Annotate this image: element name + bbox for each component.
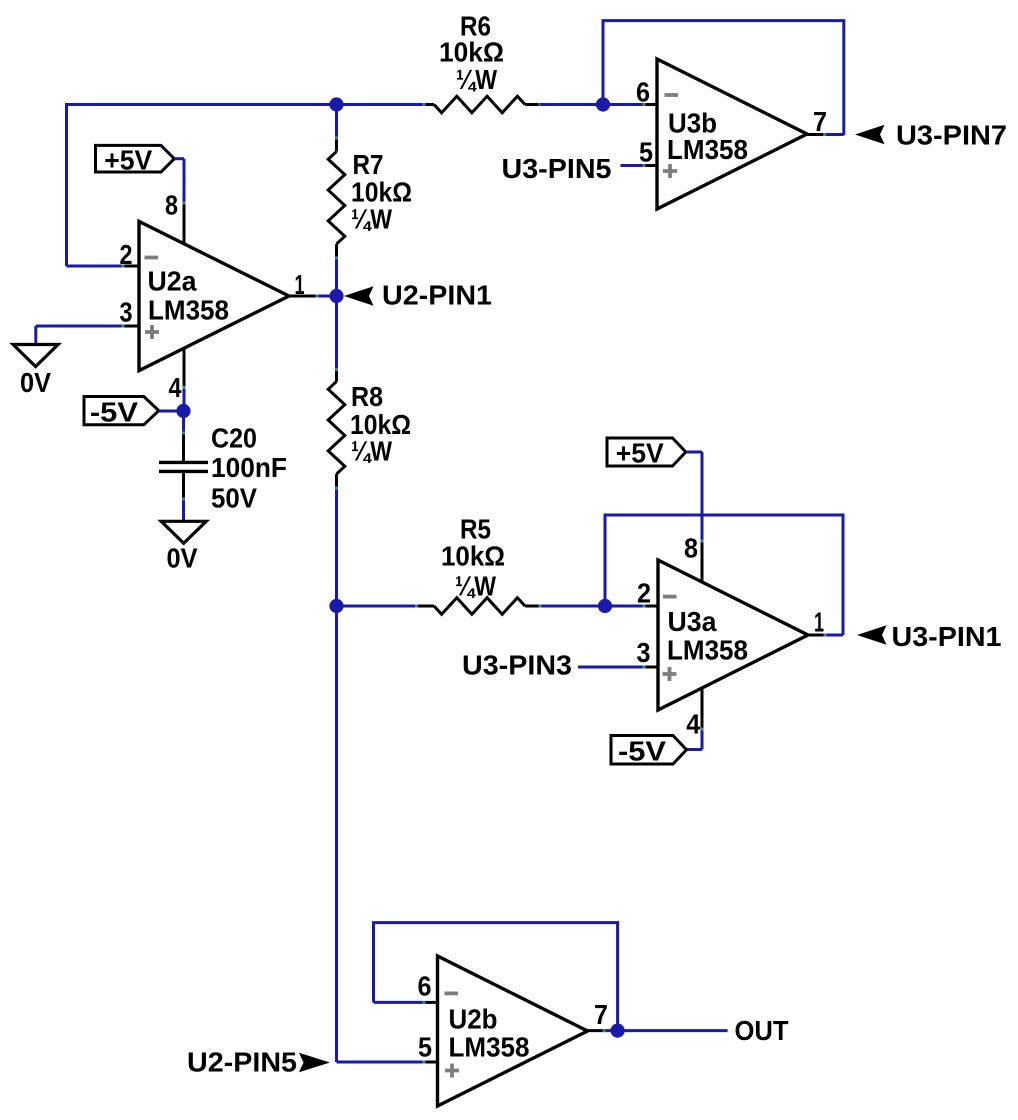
svg-text:¼W: ¼W [351,436,392,467]
svg-text:10kΩ: 10kΩ [439,37,504,68]
svg-text:LM358: LM358 [148,295,229,326]
wire U3a pin1 output [808,634,825,637]
wire U2b pin7 output [588,1029,605,1032]
svg-text:U2a: U2a [148,266,198,297]
power flag -5V (U3a pin4) [611,736,687,765]
svg-text:C20: C20 [211,423,257,454]
op-amp U2b [438,956,588,1106]
svg-text:LM358: LM358 [667,635,748,666]
svg-text:6: 6 [636,77,650,108]
resistor R7 [335,105,338,139]
svg-text:1: 1 [814,607,824,638]
svg-text:U3-PIN7: U3-PIN7 [896,120,1007,151]
wire +5V to U2a pin8 [174,157,184,160]
op-amp U2a minus input [145,256,159,260]
wire U2a pin2 horizontal [67,265,124,268]
svg-text:3: 3 [120,297,133,328]
svg-text:¼W: ¼W [351,204,392,235]
op-amp U2a plus input [145,325,159,339]
svg-text:¼W: ¼W [456,64,497,95]
ground 0V (U2a pin3) [13,345,58,367]
svg-text:4: 4 [169,372,183,403]
svg-text:2: 2 [120,239,133,270]
wire U3b pin5 [621,164,645,167]
svg-text:U2-PIN5: U2-PIN5 [187,1047,297,1078]
power flag +5V (U2a pin8) [96,145,175,172]
svg-text:U3a: U3a [668,606,718,637]
junction node OUT [611,1024,625,1038]
wire U3b feedback [602,21,605,105]
junction node U3a pin2 [598,599,612,613]
power flag -5V (U2a pin4) [84,397,159,425]
arrow U3-PIN7 [855,125,885,144]
wire U2a pin4 [183,348,186,388]
junction node pin4/C20 [176,404,190,418]
wire U3a pin3 [578,666,644,669]
svg-text:4: 4 [686,709,701,740]
wire +5V to U3a pin8 [686,451,702,454]
svg-text:R7: R7 [353,149,384,180]
svg-text:U3-PIN3: U3-PIN3 [462,650,572,681]
junction node U2-PIN1 [329,289,343,303]
svg-text:LM358: LM358 [449,1032,530,1063]
wire U2b pin5 [337,1061,425,1064]
wire U2a pin1 to node [287,295,317,298]
power flag +5V (U3a pin8) [607,438,686,466]
svg-text:8: 8 [165,190,178,221]
svg-text:8: 8 [684,533,698,564]
op-amp U2b plus input [445,1064,459,1078]
svg-text:6: 6 [418,971,432,1002]
svg-text:-5V: -5V [90,396,139,427]
svg-text:-5V: -5V [618,735,667,766]
capacitor C20 [182,411,185,433]
resistor R6 [424,103,434,106]
svg-text:5: 5 [418,1032,432,1063]
op-amp U2b minus input [445,992,459,996]
op-amp U3a plus input [663,667,677,681]
svg-text:5: 5 [639,137,653,168]
wire main vertical to U2b [335,606,338,1062]
arrow U2-PIN1 [344,286,374,305]
resistor R8 [335,296,338,370]
svg-text:2: 2 [637,578,651,609]
svg-text:+5V: +5V [616,438,665,469]
wire U3b pin7 output [807,133,825,136]
svg-text:LM358: LM358 [667,134,748,165]
op-amp U3b minus input [665,93,679,97]
svg-text:50V: 50V [211,483,258,514]
svg-text:U3-PIN5: U3-PIN5 [502,153,612,184]
svg-text:7: 7 [594,999,608,1030]
op-amp U3b plus input [663,164,677,178]
wire top horizontal to R6 [65,103,424,106]
svg-text:3: 3 [637,637,651,668]
op-amp U2a [139,221,289,370]
resistor R5 [337,605,417,608]
op-amp U3a minus input [663,595,677,599]
ground 0V (C20) [161,521,206,543]
arrow U3-PIN1 [857,625,887,644]
svg-text:U3-PIN1: U3-PIN1 [892,621,1002,652]
svg-text:100nF: 100nF [211,452,287,483]
svg-text:0V: 0V [20,367,52,398]
svg-text:0V: 0V [167,543,199,574]
op-amp U3a [658,560,808,710]
svg-text:OUT: OUT [735,1015,789,1046]
wire U2a pin3 to ground [123,325,139,328]
junction node R6/R7 [329,97,343,111]
svg-text:+5V: +5V [104,144,153,175]
wire U2b feedback [424,1001,438,1004]
svg-text:U2-PIN1: U2-PIN1 [382,280,492,311]
svg-text:U2b: U2b [449,1004,498,1035]
svg-text:10kΩ: 10kΩ [441,541,505,572]
junction node U3b pin6 [596,97,610,111]
wire -5V to pin4 node [159,410,184,413]
op-amp U3b [657,59,807,209]
wire U3a pin2 [605,605,644,608]
svg-text:R8: R8 [351,381,383,412]
svg-text:7: 7 [813,106,827,137]
junction node R8/R5 [329,599,343,613]
wire U3a feedback [604,515,607,606]
wire U3a pin4 to -5V [701,688,704,729]
arrow U2-PIN5 [299,1053,330,1073]
wire U2a feedback left vertical [65,105,68,267]
svg-text:¼W: ¼W [455,571,496,602]
wire R6 to U3b pin6 [540,103,644,106]
